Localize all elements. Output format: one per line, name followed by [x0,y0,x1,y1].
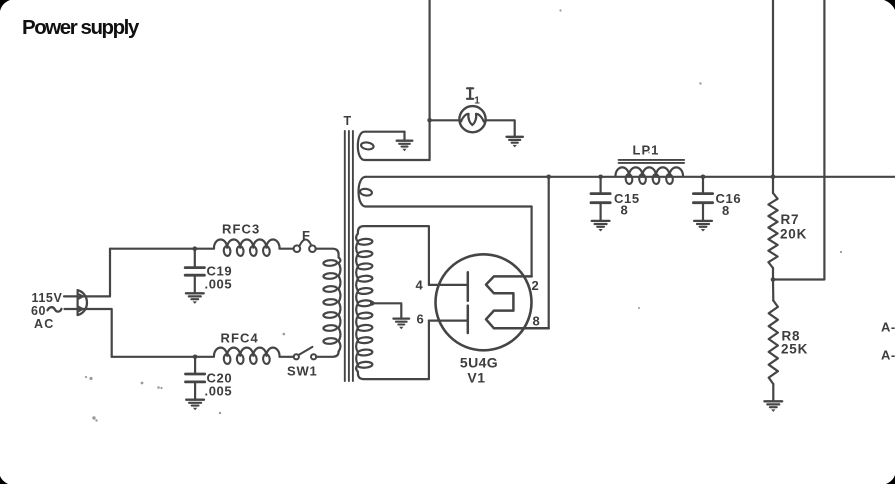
svg-text:AC: AC [34,317,54,331]
node pin8 feed [546,175,551,180]
svg-text:25K: 25K [781,341,808,356]
wire plug-bottom to rail [84,309,112,357]
node C19 tap [193,246,198,251]
svg-text:1: 1 [474,96,480,107]
wire B+ rail [366,176,895,178]
svg-text:SW1: SW1 [287,364,318,379]
wire RFC4 to SW1 [280,356,294,358]
transformer primary winding [339,258,341,264]
wire tap to ground [372,303,401,318]
ground at lamp [507,136,523,138]
corner mark bottom-right [886,475,895,484]
svg-text:A-: A- [881,320,895,335]
svg-text:8: 8 [533,314,540,329]
wire R7 top feed [772,0,774,177]
transformer secondary W3 (filament) [356,234,358,242]
ground under C15 [592,220,610,222]
pilot lamp I1 [459,106,485,132]
fuse F [294,245,301,252]
wire bottom rail [112,356,214,358]
svg-text:A-: A- [881,348,895,363]
svg-text:115V: 115V [32,291,63,305]
svg-text:5U4G: 5U4G [460,355,498,371]
wire to lamp [430,119,460,121]
wire W3 bottom to pin6 [358,321,429,380]
svg-text:60: 60 [31,304,46,318]
wire pin4 [429,284,467,286]
svg-text:RFC4: RFC4 [221,331,259,346]
inductor RFC3 [214,239,280,247]
wire lamp to ground [486,120,515,137]
capacitor C20 [194,357,196,374]
ground under C19 [186,292,204,294]
switch SW1 [294,354,299,359]
corner mark top-right [884,0,895,10]
wire fuse to primary [316,249,339,258]
wire pin6 [429,320,467,322]
node lamp tap [427,118,432,123]
choke LP1 core [619,159,685,161]
wire pin8 feed [548,177,550,328]
svg-text:V1: V1 [467,370,485,386]
ground under R8 [764,400,782,402]
svg-text:6: 6 [417,312,424,327]
svg-text:20K: 20K [780,226,807,241]
capacitor C19 [194,249,196,268]
svg-text:8: 8 [621,203,628,218]
tube filament [467,272,470,301]
tube V1 envelope [436,254,532,350]
svg-text:F: F [302,228,311,243]
wire W3 top to pin4 [358,226,429,285]
capacitor C15 [599,177,601,194]
AC plug P1 [64,295,84,297]
wire pin2 feed [530,207,532,277]
resistor R8 [772,280,774,301]
ground at W1 [403,132,405,141]
wire top feed [429,0,431,160]
node R7 top [771,175,776,180]
ground at W3 tap [393,317,409,319]
svg-text:Power supply: Power supply [22,16,140,39]
transformer secondary W1 (lamp) [358,132,430,160]
ground under C16 [694,220,712,222]
wire RFC3 to fuse [280,248,294,250]
node C15 tap [598,175,603,180]
label I1 [467,87,473,89]
svg-text:T: T [344,114,352,128]
transformer secondary W2 (HV) [359,177,532,207]
svg-text:8: 8 [722,203,729,218]
ground under C20 [186,399,204,401]
resistor R7 [772,177,774,193]
tube plates [486,276,549,328]
node C16 tap [701,175,706,180]
svg-text:4: 4 [416,278,424,293]
svg-text:R7: R7 [781,212,800,227]
svg-text:RFC3: RFC3 [222,222,260,237]
svg-text:.005: .005 [205,383,233,398]
svg-text:.005: .005 [205,277,233,292]
node W3 center tap [370,301,375,306]
inductor RFC4 [214,348,280,356]
wire plug-top to rail [84,249,110,297]
node C20 tap [193,355,198,360]
choke LP1 [616,167,684,175]
corner mark top-left [0,0,10,11]
node R7-R8 junction [771,277,776,282]
wire SW1 to primary [316,352,338,357]
corner mark bottom-left [0,476,8,484]
capacitor C16 [702,177,704,194]
scan specks [89,377,92,380]
wire junction to top [773,0,824,280]
svg-text:2: 2 [532,278,539,293]
svg-text:LP1: LP1 [633,143,660,158]
wire top rail [110,248,214,250]
transformer core [344,131,346,381]
